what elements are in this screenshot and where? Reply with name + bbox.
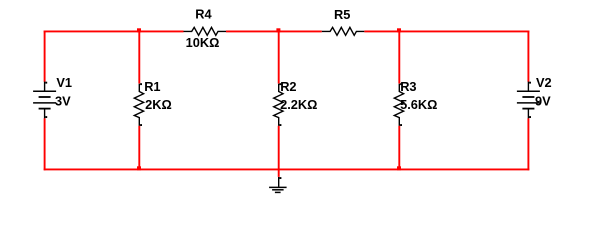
wire R1 branch upper — [138, 31, 140, 83]
battery V1 — [33, 82, 56, 119]
wire bottom rail — [44, 168, 530, 170]
wire ground stub — [278, 169, 280, 177]
wire top-right segment (R5 to V2 plus) — [364, 30, 529, 32]
ground — [269, 177, 287, 192]
svg-text:3V: 3V — [55, 94, 71, 109]
wire right rail upper — [527, 31, 529, 82]
node junction top of R1 — [137, 28, 141, 32]
svg-text:R1: R1 — [144, 79, 160, 94]
resistor R2 — [274, 84, 283, 126]
svg-text:R4: R4 — [195, 6, 212, 21]
wire top-middle segment (R4 to R5) — [226, 30, 322, 32]
wire top-left segment (V1 plus to R4) — [44, 30, 184, 32]
wire R2 branch lower — [278, 126, 280, 170]
node junction top of R2 — [276, 28, 280, 32]
resistor R3 — [394, 84, 403, 126]
wire left rail upper — [44, 31, 46, 82]
battery V2 — [517, 82, 540, 119]
wire R1 branch lower — [138, 126, 140, 170]
svg-text:2KΩ: 2KΩ — [145, 97, 172, 112]
wire R3 branch lower — [398, 126, 400, 170]
wire left rail lower — [44, 118, 46, 170]
node junction top of R3 — [397, 28, 401, 32]
wire R3 branch upper — [398, 31, 400, 83]
resistor R1 — [134, 84, 143, 126]
resistor R5 — [322, 27, 365, 35]
svg-text:2.2KΩ: 2.2KΩ — [280, 97, 317, 112]
svg-text:10KΩ: 10KΩ — [186, 35, 220, 50]
node junction bottom of R1 — [137, 166, 141, 170]
svg-text:V1: V1 — [56, 75, 72, 90]
resistor R4 — [184, 27, 227, 35]
node junction bottom of R3 — [397, 166, 401, 170]
wire R2 branch upper — [278, 31, 280, 83]
svg-text:R2: R2 — [280, 79, 296, 94]
svg-text:5.6KΩ: 5.6KΩ — [400, 97, 437, 112]
svg-text:V2: V2 — [536, 75, 552, 90]
svg-text:R3: R3 — [400, 79, 416, 94]
wire right rail lower — [527, 118, 529, 170]
svg-text:R5: R5 — [334, 7, 350, 22]
svg-text:9V: 9V — [535, 94, 551, 109]
